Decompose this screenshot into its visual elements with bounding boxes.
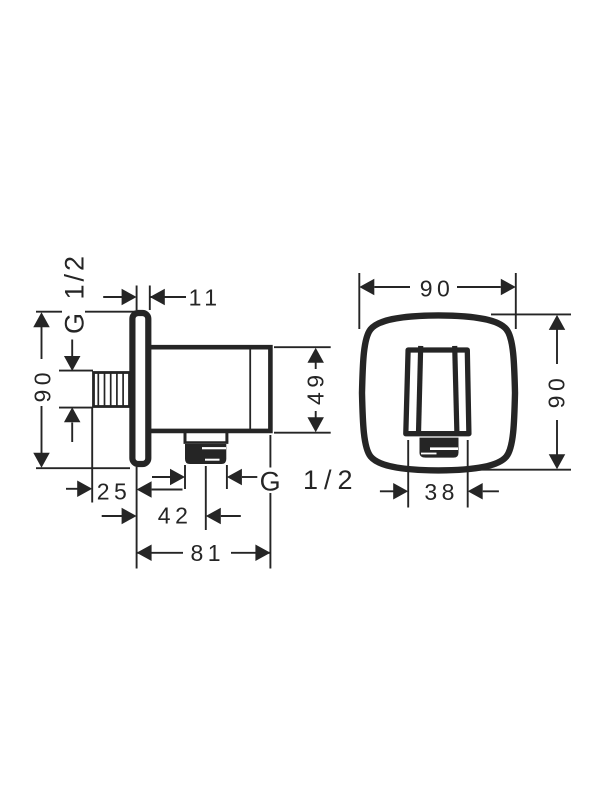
- front view: holder bracket: [406, 346, 469, 434]
- dimension 38: [380, 440, 499, 508]
- front view: squircle face plate: [362, 315, 515, 470]
- svg-text:90: 90: [544, 374, 570, 409]
- svg-text:11: 11: [189, 284, 222, 310]
- side view: bottom outlet thread (black): [185, 444, 226, 464]
- dimension 81: [137, 552, 271, 554]
- label G 1/2 (outlet thread callout): [152, 465, 257, 489]
- dimension 90 (side view height): [36, 312, 136, 469]
- svg-text:49: 49: [302, 370, 328, 405]
- svg-text:G 1/2: G 1/2: [59, 253, 89, 334]
- side view: body barrel: [151, 347, 271, 431]
- front view: outlet thread (black): [420, 438, 459, 458]
- side view: wall-side threaded inlet G1/2: [94, 373, 130, 407]
- dimension 90 (front width): [359, 273, 516, 329]
- svg-text:90: 90: [29, 368, 55, 403]
- body-front extension line (gapped at G): [269, 435, 271, 569]
- dimension 90 (front height): [475, 314, 571, 469]
- svg-text:42: 42: [158, 502, 193, 528]
- G1/2 leader arrows onto thread: [59, 340, 93, 443]
- svg-text:25: 25: [97, 478, 132, 504]
- dimension 25: [66, 408, 183, 503]
- svg-text:38: 38: [424, 479, 459, 505]
- dimension 42: [102, 466, 241, 530]
- svg-text:90: 90: [420, 276, 455, 302]
- svg-text:1/2: 1/2: [303, 465, 359, 495]
- dimension 11: [103, 286, 186, 311]
- side view: bottom outlet nipple neck: [184, 433, 229, 443]
- dimension 49: [274, 347, 331, 433]
- svg-text:81: 81: [190, 540, 225, 566]
- svg-text:G: G: [260, 466, 281, 496]
- wall-face extension line: [136, 467, 138, 569]
- side view: wall plate (escutcheon): [132, 313, 148, 464]
